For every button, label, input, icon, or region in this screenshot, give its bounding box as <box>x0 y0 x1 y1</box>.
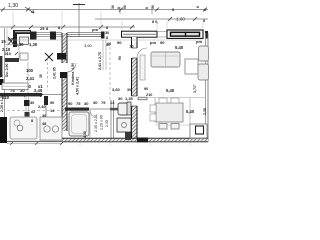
partition wall left bathroom <box>25 96 27 117</box>
armchair mid right <box>198 64 209 80</box>
svg-text:75: 75 <box>76 101 81 106</box>
window sill inner line top wall <box>13 39 203 41</box>
tick near 1,30 <box>26 8 30 12</box>
left boundary wall thin <box>4 28 6 131</box>
bottom exterior wall y138 <box>62 137 208 139</box>
svg-text:90: 90 <box>68 101 73 106</box>
dimension line top chain 3 <box>0 26 135 28</box>
central vertical thick wall x131 hatched <box>131 37 138 48</box>
svg-text:2,35 x 1,20: 2,35 x 1,20 <box>0 94 4 112</box>
interior wall horizontal y58 left <box>5 58 19 62</box>
door gap jambs central wall <box>132 47 138 49</box>
svg-text:20: 20 <box>130 45 134 49</box>
svg-text:1,60: 1,60 <box>176 17 185 22</box>
extension lines walls to dim chains <box>13 11 203 31</box>
shower tray left bathroom <box>10 117 37 139</box>
tick small top mid <box>119 7 121 14</box>
window W1b top <box>56 32 62 36</box>
svg-text:8: 8 <box>145 7 149 9</box>
toilet middle bathroom <box>118 103 129 115</box>
interior wall horizontal y107 center <box>65 108 89 111</box>
svg-text:30: 30 <box>93 100 98 105</box>
door blob bottom wall <box>137 138 148 143</box>
svg-text:1,20 x 90: 1,20 x 90 <box>100 115 104 130</box>
dimension line top chain 1 <box>0 9 208 11</box>
svg-text:75: 75 <box>101 100 106 105</box>
svg-text:90: 90 <box>144 87 148 91</box>
interior wall horizontal y93 <box>0 93 42 96</box>
svg-text:25: 25 <box>40 26 45 31</box>
svg-text:1,30: 1,30 <box>29 42 38 47</box>
svg-text:30: 30 <box>84 101 89 106</box>
svg-text:30: 30 <box>127 88 131 92</box>
circled number 9 <box>17 125 23 131</box>
svg-text:30: 30 <box>105 31 109 35</box>
svg-text:8: 8 <box>106 26 108 30</box>
living room labels <box>150 39 202 45</box>
door jamb blob upper <box>24 100 30 106</box>
dashed line bedroom <box>109 42 111 100</box>
svg-text:30: 30 <box>151 5 155 9</box>
door leaf central wall lower <box>138 97 147 100</box>
balcony wall black bar left edge <box>0 56 2 77</box>
radiator box left <box>2 83 28 90</box>
misc tick marks plan <box>11 8 159 30</box>
svg-text:1,90: 1,90 <box>0 71 4 78</box>
bottom wall left thin <box>7 140 62 142</box>
svg-text:2,40: 2,40 <box>38 104 46 109</box>
svg-text:35: 35 <box>39 74 43 78</box>
dining chairs bottom <box>159 124 167 130</box>
top wall pillar B <box>50 32 56 40</box>
door blob on wall x62 <box>57 53 66 60</box>
top exterior wall corner L left <box>13 30 31 47</box>
shaft black block bottom-left <box>0 117 7 143</box>
tick line top right <box>151 7 153 14</box>
stacked dim texts above W4 <box>105 26 109 40</box>
svg-text:8: 8 <box>106 36 108 40</box>
svg-text:90: 90 <box>118 56 122 60</box>
right exterior wall double line <box>205 33 207 141</box>
washer dryer unit left bathroom <box>40 117 62 140</box>
svg-text:15,30: 15,30 <box>13 42 24 47</box>
svg-text:8: 8 <box>203 19 205 23</box>
svg-text:5,40: 5,40 <box>166 88 175 93</box>
top wall corner right <box>205 31 208 39</box>
svg-text:4,50 x 2,41: 4,50 x 2,41 <box>76 77 80 95</box>
partition jamb dark mid bathroom <box>44 96 48 105</box>
svg-text:30: 30 <box>30 100 34 105</box>
door swing X top-left <box>8 37 14 45</box>
svg-text:30: 30 <box>118 96 123 101</box>
door gap jambs central wall lower <box>132 95 138 97</box>
closet block below corner <box>20 37 29 45</box>
tick specks below left wall <box>10 142 63 145</box>
wall gap lines between W4 and W5 <box>157 31 167 33</box>
ticks on wall y93 <box>7 94 43 97</box>
bathtub middle bathroom <box>69 112 89 136</box>
dimension text cluster top walls <box>40 25 122 47</box>
svg-text:2,41 95: 2,41 95 <box>53 67 57 79</box>
small cabinet box upper-left hallway <box>20 53 28 60</box>
svg-text:3,60: 3,60 <box>112 87 121 92</box>
svg-text:2,40: 2,40 <box>34 88 43 93</box>
kitchen counter bottom right <box>190 124 207 138</box>
svg-text:14: 14 <box>110 100 115 105</box>
svg-text:210: 210 <box>5 52 11 56</box>
svg-text:4,30: 4,30 <box>83 131 87 138</box>
svg-text:5,40: 5,40 <box>175 45 184 50</box>
svg-text:90: 90 <box>160 40 165 45</box>
bottom dimension texts center <box>68 96 134 106</box>
window W2 top <box>67 32 101 36</box>
svg-text:90: 90 <box>50 100 54 105</box>
coffee table living room <box>185 59 198 74</box>
shower middle bathroom <box>117 118 131 132</box>
svg-text:pm: pm <box>150 40 156 45</box>
thin partition lines interior <box>5 40 205 138</box>
svg-text:2,41 x 2,75: 2,41 x 2,75 <box>98 52 102 70</box>
svg-text:8: 8 <box>117 7 121 9</box>
svg-text:2,35: 2,35 <box>105 120 109 127</box>
svg-text:5,40: 5,40 <box>186 109 195 114</box>
svg-text:8: 8 <box>172 8 174 12</box>
section leader vertical top-middle <box>78 3 80 37</box>
dimension text cluster left <box>1 37 43 100</box>
svg-text:100: 100 <box>26 68 34 73</box>
dashed vertical hallway <box>47 58 49 90</box>
door swing arc living <box>137 48 147 58</box>
dimension ticks on chains <box>1 8 207 22</box>
svg-text:1,35: 1,35 <box>125 96 134 101</box>
svg-text:1,30: 1,30 <box>8 3 18 9</box>
svg-text:8: 8 <box>196 6 200 8</box>
svg-text:8 9,: 8 9, <box>152 20 158 24</box>
svg-text:210: 210 <box>146 93 152 97</box>
svg-text:90: 90 <box>117 40 122 45</box>
counter front edge kitchen <box>155 124 190 126</box>
window W1 top <box>37 32 51 36</box>
svg-text:90: 90 <box>107 42 111 46</box>
svg-text:pm: pm <box>196 39 202 44</box>
door leaf blob bottom central wall <box>125 132 131 140</box>
extension lines bottom <box>80 142 190 145</box>
svg-text:pm: pm <box>92 27 98 32</box>
dashed line bathroom left <box>7 110 60 112</box>
small black block left edge <box>0 79 4 85</box>
svg-text:2,35: 2,35 <box>203 108 207 115</box>
sofa horizontal living room <box>151 52 180 67</box>
dining table <box>156 103 183 122</box>
svg-text:2,41: 2,41 <box>26 76 35 81</box>
top wall pillar A <box>30 32 37 40</box>
window W4 framed top <box>122 31 158 37</box>
svg-text:50: 50 <box>123 5 127 9</box>
door jamb blob lower <box>25 112 30 117</box>
dining chairs left <box>150 105 156 112</box>
interior vertical wall x62 hatched <box>62 33 67 63</box>
door swing arc entry <box>67 63 76 72</box>
svg-text:Du. 2,90: Du. 2,90 <box>5 64 9 77</box>
tick next to 210 <box>15 52 18 55</box>
svg-text:2,35 x 2,41: 2,35 x 2,41 <box>94 114 98 132</box>
left room dimension texts <box>30 100 55 126</box>
door swing X hallway <box>45 53 53 61</box>
svg-text:30: 30 <box>111 5 115 9</box>
svg-text:3,71°: 3,71° <box>193 84 197 93</box>
leader arrow top-left <box>25 7 34 13</box>
sideboard along wall living <box>140 55 145 80</box>
dimension line top chain 2 <box>95 18 208 20</box>
svg-text:15: 15 <box>1 39 6 44</box>
svg-text:Kinderz. 4,50: Kinderz. 4,50 <box>71 63 75 85</box>
svg-text:3,60: 3,60 <box>84 43 93 48</box>
door swing arc bath middle <box>90 110 98 118</box>
armchair top right <box>199 46 209 61</box>
kitchen sink dark square <box>196 126 204 134</box>
window W2 end post <box>101 32 105 39</box>
window W5 framed bold top-right <box>167 30 203 38</box>
dining chairs top <box>159 98 167 103</box>
